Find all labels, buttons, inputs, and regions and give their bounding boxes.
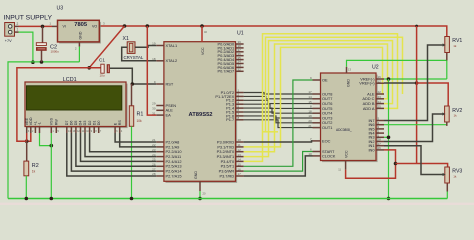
svg-text:1000u: 1000u <box>51 50 60 54</box>
svg-text:XTAL2: XTAL2 <box>166 58 178 63</box>
svg-text:IN0: IN0 <box>368 147 375 152</box>
svg-text:1: 1 <box>17 28 19 32</box>
wire U1 P3.6 to U2 START <box>244 152 313 172</box>
node rail junction to EA <box>146 24 150 28</box>
svg-text:16: 16 <box>238 167 242 171</box>
svg-text:11: 11 <box>338 168 341 172</box>
svg-text:26: 26 <box>378 146 382 150</box>
svg-text:D5: D5 <box>74 121 78 126</box>
svg-text:D1: D1 <box>92 121 96 126</box>
wire U1 P3.2 to U2 ADD C <box>244 44 388 152</box>
label CRYSTAL <box>124 55 144 60</box>
label R1 value 10k <box>137 119 143 123</box>
wire U1 P1.4 to U2 OUT4 <box>244 108 313 113</box>
wire gnd drop to bus <box>388 79 390 199</box>
resistor R2 <box>24 141 29 198</box>
wire LCD RS to U1 P2.1 <box>120 133 157 147</box>
svg-text:VSS: VSS <box>50 117 54 125</box>
svg-text:D6: D6 <box>70 121 74 126</box>
svg-text:15: 15 <box>308 100 312 104</box>
svg-text:P2.7/A15: P2.7/A15 <box>166 173 182 178</box>
svg-text:14: 14 <box>238 158 242 162</box>
svg-text:VCC: VCC <box>201 47 205 55</box>
node U1 gnd bus junction <box>198 197 202 201</box>
capacitor C2 <box>36 26 46 62</box>
wire +5V to C1 and LCD VDD <box>17 68 101 141</box>
wire RV3 bottom to bus <box>446 192 448 199</box>
svg-text:22: 22 <box>152 143 156 147</box>
svg-text:RS: RS <box>118 120 122 126</box>
wire X1 to XTAL1 <box>135 46 156 48</box>
wire VREF+ to +5V <box>384 82 417 84</box>
svg-text:2: 2 <box>75 47 77 51</box>
svg-text:OUT1: OUT1 <box>322 125 332 130</box>
svg-text:7: 7 <box>100 130 102 133</box>
svg-text:U2: U2 <box>372 65 379 71</box>
svg-text:VI: VI <box>63 25 66 29</box>
svg-text:19: 19 <box>152 42 156 46</box>
wire input GND down <box>19 32 33 62</box>
wire C1 to RST <box>110 68 156 84</box>
wire U1 P3.7 to U2 CLOCK <box>244 156 313 176</box>
crystal X1 <box>127 42 135 54</box>
svg-text:1k: 1k <box>32 170 36 174</box>
svg-text:5: 5 <box>58 130 60 133</box>
label R2 value 1k <box>32 170 36 174</box>
capacitor C1 <box>101 64 110 73</box>
wire U1 P1.0 to U2 OUT8 <box>244 93 313 95</box>
wire LCD D3 to U1 P2.3 <box>85 133 156 157</box>
svg-text:18: 18 <box>308 109 312 113</box>
label X1 <box>123 36 129 42</box>
label C2 <box>50 45 57 51</box>
svg-text:12: 12 <box>238 148 242 152</box>
wire LCD D6 to U1 P2.6 <box>71 133 156 171</box>
svg-text:21: 21 <box>308 124 312 128</box>
svg-text:23: 23 <box>152 148 156 152</box>
svg-text:19: 19 <box>308 114 312 118</box>
wire U1 P3.3 to U2 ADD B <box>244 41 393 157</box>
wire +5V to RV2 <box>417 83 449 106</box>
label RV3 <box>452 169 462 175</box>
svg-text:LCD1: LCD1 <box>63 77 77 83</box>
wire U1 P3.4 to U2 ADD A <box>244 34 398 162</box>
label RV3 value 1k <box>453 175 457 179</box>
wire input +7V to 7805 VI <box>19 25 53 27</box>
wire gnd to VREF- <box>384 78 447 80</box>
label C2 value 1000u <box>51 50 60 54</box>
node bus VSS <box>50 197 54 201</box>
svg-text:+7V: +7V <box>5 39 12 43</box>
svg-text:31: 31 <box>152 111 156 115</box>
svg-text:RST: RST <box>166 81 174 86</box>
svg-text:P1.7: P1.7 <box>226 117 234 122</box>
svg-text:-L: -L <box>38 122 42 125</box>
svg-text:29: 29 <box>152 102 156 106</box>
svg-text:XTAL1: XTAL1 <box>166 43 178 48</box>
node VCC RV3 junction <box>394 162 398 166</box>
svg-text:30: 30 <box>152 107 156 111</box>
svg-text:2: 2 <box>32 130 34 133</box>
svg-text:13: 13 <box>348 67 351 71</box>
LCD display LCD1 <box>25 82 128 133</box>
label RV1 <box>452 38 462 44</box>
svg-text:D4: D4 <box>79 121 83 126</box>
svg-text:VDD: VDD <box>29 117 33 125</box>
wire LCD VEE down <box>26 133 28 141</box>
wire U1 GND to bus <box>199 191 201 199</box>
label RV2 value 1k <box>454 114 458 118</box>
node bus R2 <box>25 197 29 201</box>
svg-text:32: 32 <box>238 68 242 72</box>
svg-text:R2: R2 <box>32 163 39 169</box>
svg-text:D3: D3 <box>83 121 87 126</box>
svg-text:40: 40 <box>204 30 207 34</box>
svg-text:4: 4 <box>121 130 123 133</box>
wire RV2 wiper to IN2 <box>384 114 444 142</box>
svg-text:GND: GND <box>194 171 198 179</box>
svg-text:AT89S52: AT89S52 <box>188 112 212 118</box>
potentiometer RV2 <box>441 106 450 126</box>
wire 7805 GND down to green <box>78 47 80 62</box>
svg-text:11: 11 <box>238 143 241 147</box>
svg-text:10u: 10u <box>100 74 105 78</box>
svg-text:6: 6 <box>116 130 118 133</box>
svg-text:GND: GND <box>79 31 83 39</box>
wire +5V to RV3 <box>396 164 448 168</box>
wire U1 P1.1 to U2 OUT7 <box>244 96 313 98</box>
svg-text:1: 1 <box>53 130 55 133</box>
connector J1 INPUT SUPPLY <box>5 22 19 36</box>
label R2 <box>32 163 39 169</box>
wire VEE to R2 net <box>17 140 27 142</box>
wire U1 P3.0 to U2 EOC <box>244 141 313 142</box>
svg-text:EOC: EOC <box>322 138 331 143</box>
svg-text:VCC: VCC <box>345 150 349 158</box>
node bus R1 <box>130 197 134 201</box>
svg-text:26: 26 <box>152 163 156 167</box>
svg-text:VO: VO <box>92 25 97 29</box>
node RST R1 junction <box>131 82 135 86</box>
svg-text:13: 13 <box>238 153 242 157</box>
node C2 bottom junction <box>40 60 44 64</box>
svg-text:12: 12 <box>378 79 382 83</box>
svg-text:14: 14 <box>308 95 312 99</box>
svg-text:10: 10 <box>308 152 312 156</box>
label U1 <box>237 31 244 37</box>
wire LCD -L to gnd <box>40 133 52 146</box>
decor bottom band <box>0 203 474 205</box>
svg-text:X1: X1 <box>123 36 129 42</box>
svg-text:U1: U1 <box>237 31 244 37</box>
svg-text:9: 9 <box>91 130 93 133</box>
adc U2 ADC0808 <box>308 67 384 172</box>
microcontroller U1 AT89S52 <box>152 26 243 196</box>
wire LCD E to U1 P2.0 <box>115 133 156 142</box>
label INPUT SUPPLY <box>4 14 53 21</box>
node rail junction U1 VCC <box>200 24 204 28</box>
node VREF- gnd junction <box>387 77 391 81</box>
node VEE R2 junction <box>25 139 29 143</box>
wire RV1 wiper to IN7 <box>384 45 444 121</box>
wire +5V down right side <box>416 26 418 164</box>
wire LCD D5 to U1 P2.5 <box>76 133 156 166</box>
wire gnd horizontal <box>8 62 79 199</box>
svg-text:24: 24 <box>152 153 156 157</box>
svg-text:15: 15 <box>238 163 242 167</box>
wire ground bus <box>8 198 447 200</box>
svg-text:1k: 1k <box>453 44 457 48</box>
svg-text:ADD A: ADD A <box>363 106 375 111</box>
svg-text:EA: EA <box>166 113 172 118</box>
label +7V <box>5 39 12 43</box>
node C2 top junction <box>41 25 45 29</box>
wire U1 P1.7 to U2 OUT1 <box>244 120 313 128</box>
potentiometer RV3 <box>441 167 450 192</box>
svg-text:CLOCK: CLOCK <box>322 153 336 158</box>
wire U1 P1.5 to U2 OUT3 <box>244 112 313 118</box>
label U3 <box>57 6 64 12</box>
label ADC0808 <box>336 128 352 132</box>
svg-text:10: 10 <box>238 138 242 142</box>
svg-text:25: 25 <box>378 105 382 109</box>
node rail junction to LCD supply <box>123 24 127 28</box>
node VREF+ junction <box>415 81 419 85</box>
wire EA pullup <box>147 26 156 115</box>
svg-text:ADC0808_: ADC0808_ <box>336 128 352 132</box>
svg-text:1k: 1k <box>453 175 457 179</box>
svg-text:17: 17 <box>238 172 242 176</box>
svg-text:3: 3 <box>28 130 30 133</box>
wire U1 P1.6 to U2 OUT2 <box>244 116 313 123</box>
svg-text:28: 28 <box>152 172 156 176</box>
wire LCD D7 to U1 P2.7 <box>67 133 157 176</box>
svg-text:OE: OE <box>322 77 328 82</box>
svg-text:D0: D0 <box>97 121 101 126</box>
wire LCD VSS to ground bus <box>50 133 52 199</box>
wire X1 to XTAL2 <box>122 47 157 61</box>
svg-text:10k: 10k <box>137 119 143 123</box>
wire RV3 wiper to IN1 <box>384 146 444 175</box>
svg-text:25: 25 <box>152 158 156 162</box>
svg-text:2: 2 <box>17 22 19 26</box>
svg-text:1: 1 <box>49 22 51 26</box>
svg-text:P0.7/AD7: P0.7/AD7 <box>218 69 235 74</box>
wire U1 P3.5 to U2 OE <box>244 80 313 166</box>
wire +5V rail <box>100 26 447 37</box>
label C1 <box>99 58 105 63</box>
label RV1 value 1k <box>453 44 457 48</box>
wire +5V diagonal <box>89 26 124 68</box>
svg-text:GND: GND <box>347 79 351 87</box>
label U2 <box>372 65 379 71</box>
svg-text:RW: RW <box>55 119 59 126</box>
wire LCD D4 to U1 P2.4 <box>81 133 157 161</box>
wire U1 P3.1 to U2 ALE <box>244 47 384 146</box>
svg-text:3: 3 <box>103 22 105 26</box>
node gnd bus junction right <box>387 197 391 201</box>
svg-text:C1: C1 <box>99 58 105 63</box>
node rail junction RV2 feed <box>415 25 418 28</box>
label R1 <box>137 112 144 118</box>
resistor R1 <box>129 84 133 199</box>
wire yellow spare loop <box>263 131 279 133</box>
svg-text:7805: 7805 <box>74 22 88 28</box>
svg-text:1k: 1k <box>454 114 458 118</box>
svg-text:P3.7/RD: P3.7/RD <box>219 173 234 178</box>
svg-text:27: 27 <box>152 167 156 171</box>
svg-text:20: 20 <box>203 192 206 196</box>
svg-text:8: 8 <box>95 130 97 133</box>
svg-text:D2: D2 <box>88 121 92 126</box>
potentiometer RV1 <box>441 37 450 61</box>
node IN3 gnd junction <box>387 136 391 140</box>
svg-text:20: 20 <box>308 119 312 123</box>
wire U2 GND top to RV1 bottom <box>347 60 447 79</box>
node input gnd junction <box>31 60 35 64</box>
label RV2 <box>452 108 462 114</box>
svg-text:INPUT SUPPLY: INPUT SUPPLY <box>4 14 53 21</box>
wire IN3 stub to gnd <box>384 136 389 138</box>
label AT89S52 <box>188 112 212 118</box>
wire RV2 bottom to IN6 <box>384 122 447 125</box>
svg-text:D7: D7 <box>65 121 69 126</box>
regulator U3 7805 <box>49 20 105 50</box>
wire U2 VCC bottom <box>346 150 396 178</box>
svg-text:CRYSTAL: CRYSTAL <box>124 55 144 60</box>
wire U1 P1.3 to U2 OUT5 <box>244 104 313 108</box>
svg-text:23: 23 <box>378 95 382 99</box>
svg-text:U3: U3 <box>57 6 64 12</box>
svg-text:24: 24 <box>378 100 382 104</box>
wire yellow spare loop 2 <box>266 37 403 132</box>
wire LCD D2 to U1 P2.2 <box>90 133 157 152</box>
node diagonal-LCD junction <box>87 66 91 70</box>
node VSS gnd junction <box>50 144 54 148</box>
svg-text:17: 17 <box>308 90 312 94</box>
label 7805 <box>74 22 88 28</box>
svg-text:R1: R1 <box>137 112 144 118</box>
wire U1 P1.2 to U2 OUT6 <box>244 100 313 103</box>
svg-text:21: 21 <box>152 138 156 142</box>
svg-text:22: 22 <box>378 90 382 94</box>
label C1 value 10u <box>100 74 105 78</box>
svg-text:18: 18 <box>152 57 156 61</box>
svg-text:VREF(+): VREF(+) <box>359 81 375 86</box>
label LCD1 <box>63 77 77 83</box>
